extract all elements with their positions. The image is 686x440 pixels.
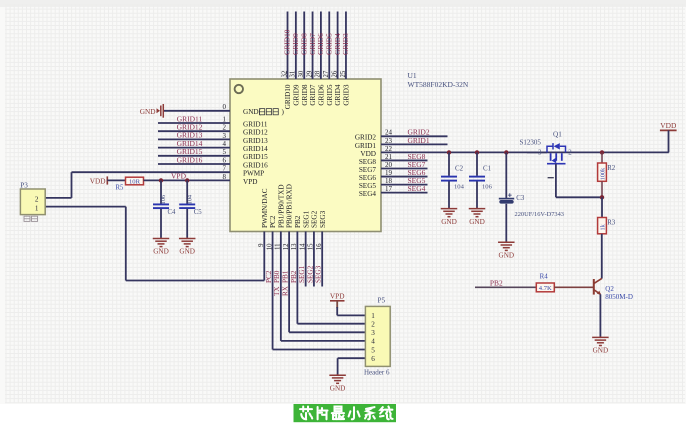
wire SEG4 stub	[381, 192, 428, 194]
svg-text:PB2: PB2	[290, 270, 298, 283]
capacitor C4	[153, 180, 169, 237]
P3 designator	[20, 181, 28, 189]
svg-text:S12305: S12305	[520, 139, 542, 147]
power port VDD top right	[660, 121, 677, 130]
svg-text:C5: C5	[194, 209, 203, 216]
ground below C4	[153, 238, 170, 256]
svg-text:SEG3: SEG3	[319, 210, 327, 228]
net label SEG4	[408, 184, 426, 193]
svg-text:3: 3	[538, 149, 542, 156]
ground below P5	[329, 374, 346, 392]
wire pin0 GND	[164, 110, 230, 112]
mosfet Q1 S12305	[547, 143, 566, 164]
svg-text:RX: RX	[282, 285, 290, 296]
U1 right pin names	[355, 134, 377, 198]
svg-text:SEG2: SEG2	[306, 265, 314, 283]
net label GRID14	[177, 139, 203, 148]
Q1 gate pin tick	[548, 177, 554, 179]
ground power port at pin 0	[140, 104, 164, 118]
capacitor C1	[469, 152, 485, 208]
wire PB1 to P5 pin3	[289, 232, 365, 333]
P5 designator	[378, 296, 386, 304]
junction C5	[185, 178, 189, 182]
junction C3 on VDD rail	[504, 150, 508, 154]
U1 top pin names	[284, 84, 350, 109]
U1 left pin names	[243, 108, 285, 186]
wire GRID4 top pin	[337, 12, 339, 80]
wire GRID7 top pin	[312, 12, 314, 80]
svg-text:PB1/PB0/TXD: PB1/PB0/TXD	[277, 184, 285, 228]
wire GRID14 stub	[158, 147, 230, 149]
wire PB2 to P5 pin2	[297, 232, 365, 324]
svg-text:GND: GND	[330, 384, 346, 392]
svg-text:P3: P3	[20, 181, 28, 189]
wire VDD to R5	[107, 179, 125, 181]
wire GRID2 stub	[381, 135, 448, 137]
svg-text:SEG4: SEG4	[408, 184, 426, 193]
IC U1 WT588F02KD-32N body	[230, 79, 381, 232]
wire VPD row pin8	[144, 179, 231, 181]
svg-text:PWMP: PWMP	[243, 170, 264, 178]
capacitor C5	[179, 180, 195, 237]
wire PB0 to P5 pin4	[281, 232, 366, 341]
C2 value 104	[454, 184, 465, 191]
svg-text:GRID1: GRID1	[408, 136, 430, 145]
svg-text:SEG5: SEG5	[359, 182, 377, 190]
svg-text:GND: GND	[179, 248, 195, 256]
svg-text:SEG3: SEG3	[315, 265, 323, 283]
wire GRID9 top pin	[295, 12, 297, 80]
net label GRID2	[408, 128, 430, 137]
svg-text:PB0: PB0	[273, 270, 281, 283]
net label SEG8	[408, 152, 426, 161]
wire GRID13 stub	[158, 138, 230, 140]
wire PC2 to P5 pin5	[273, 232, 366, 350]
svg-text:2: 2	[35, 196, 39, 204]
svg-text:GRID14: GRID14	[243, 145, 268, 153]
C1 designator	[483, 166, 492, 173]
svg-text:TX: TX	[273, 286, 281, 296]
wire GRID1 stub	[381, 143, 448, 145]
svg-text:GRID5: GRID5	[326, 84, 334, 106]
svg-text:100k: 100k	[599, 167, 606, 180]
power port VPD above P5	[330, 291, 345, 301]
net label GRID16	[177, 155, 203, 164]
ground below C3	[498, 241, 515, 259]
wire GRID3 top pin	[345, 12, 347, 80]
wire SEG2 stub	[313, 232, 315, 287]
Q2 designator	[605, 285, 614, 293]
C1 value 106	[482, 184, 493, 191]
net labels top GRID10-GRID3	[283, 29, 350, 55]
net label GRID1	[408, 136, 430, 145]
wire GRID10 top pin	[287, 12, 289, 80]
wire GRID8 top pin	[303, 12, 305, 80]
R2 designator	[607, 165, 616, 172]
wire SEG7 stub	[381, 168, 428, 170]
svg-text:GND: GND	[469, 218, 485, 226]
svg-text:SEG1: SEG1	[302, 210, 310, 228]
svg-text:C4: C4	[168, 209, 177, 216]
power port VDD left	[90, 176, 108, 185]
svg-text:1k: 1k	[599, 223, 606, 230]
junction C2 on VDD rail	[447, 150, 451, 154]
svg-text:PWMN/DAC: PWMN/DAC	[261, 188, 269, 228]
U1 designator label	[408, 71, 417, 80]
wire SEG5 stub	[381, 184, 428, 186]
svg-text:C1: C1	[483, 166, 492, 173]
svg-text:VPD: VPD	[171, 171, 187, 180]
R4 designator	[540, 274, 549, 281]
svg-text:SEG2: SEG2	[311, 210, 319, 228]
svg-text:SEG4: SEG4	[359, 190, 377, 198]
wire to R3	[601, 197, 603, 217]
U1 top pin numbers	[281, 70, 346, 77]
C5 value 104	[186, 194, 193, 204]
svg-text:GRID13: GRID13	[243, 137, 268, 145]
wire GRID12 stub	[158, 130, 230, 132]
svg-text:VDD: VDD	[90, 176, 106, 185]
Q1 pin3 number	[538, 149, 542, 156]
ground below Q2	[592, 336, 609, 354]
svg-text:104: 104	[186, 194, 193, 204]
title 芯片最小系统 (chip minimal system)	[294, 404, 397, 422]
wire PB2 stub	[475, 286, 536, 288]
wire SEG3 stub	[321, 232, 323, 287]
svg-text:106: 106	[482, 184, 493, 191]
junction C1 on VDD rail	[475, 150, 479, 154]
svg-text:GND: GND	[441, 218, 457, 226]
svg-text:GRID16: GRID16	[177, 155, 203, 164]
svg-text:5: 5	[371, 346, 375, 354]
svg-text:2: 2	[371, 321, 375, 329]
resistor R4	[536, 283, 554, 292]
wire P5 pin6 to ground	[338, 358, 366, 374]
svg-text:4: 4	[371, 338, 375, 346]
svg-text:GND: GND	[593, 347, 609, 355]
svg-text:10R: 10R	[129, 179, 141, 186]
svg-text:GRID7: GRID7	[309, 84, 317, 106]
wire Q1 gate to R2 bottom	[556, 164, 602, 198]
ground below C1	[469, 208, 486, 226]
R5 designator	[116, 184, 125, 191]
svg-text:VDD: VDD	[360, 150, 376, 158]
net label SEG7	[408, 160, 426, 169]
svg-text:SEG8: SEG8	[359, 158, 377, 166]
svg-text:6: 6	[371, 355, 375, 363]
transistor Q2 8050M-D	[594, 278, 602, 294]
svg-text:104: 104	[454, 184, 465, 191]
net label RX	[282, 285, 290, 296]
wire R3 to Q2 collector	[601, 234, 603, 279]
wire P3 pin1 run	[45, 207, 126, 281]
resistor R3	[598, 218, 607, 234]
svg-text:PC2: PC2	[265, 270, 273, 283]
ground below C2	[441, 208, 458, 226]
wire SEG1 stub	[305, 232, 307, 287]
U1 left pin numbers	[223, 103, 227, 181]
U1 bottom pin names	[261, 184, 327, 228]
U1 part number label	[408, 80, 469, 89]
wire GRID11 stub	[158, 122, 230, 124]
svg-text:SEG7: SEG7	[359, 166, 377, 174]
wire VPD to P5 pin1	[337, 301, 365, 316]
C5 designator	[194, 209, 203, 216]
svg-text:GRID9: GRID9	[292, 84, 300, 106]
svg-text:1: 1	[371, 312, 375, 320]
svg-text:R5: R5	[116, 184, 125, 191]
svg-text:U1: U1	[408, 71, 417, 80]
svg-text:R3: R3	[607, 220, 616, 227]
svg-text:C2: C2	[455, 166, 464, 173]
wire R2 bottom stub	[601, 181, 603, 197]
svg-text:GRID15: GRID15	[243, 153, 268, 161]
junction C4	[159, 178, 163, 182]
net label SEG6	[408, 168, 426, 177]
svg-text:WT588F02KD-32N: WT588F02KD-32N	[408, 80, 469, 89]
svg-text:GRID12: GRID12	[243, 129, 268, 137]
svg-text:PB2: PB2	[490, 278, 503, 287]
svg-text:GRID10: GRID10	[284, 84, 292, 109]
svg-text:4.7K: 4.7K	[539, 285, 552, 292]
net label PB2	[490, 278, 503, 287]
R3 designator	[607, 220, 616, 227]
junction R2 top	[600, 150, 604, 154]
svg-text:R2: R2	[607, 165, 616, 172]
svg-text:106: 106	[160, 195, 167, 205]
net label GRID11	[177, 114, 203, 123]
svg-text:VPD: VPD	[330, 291, 345, 300]
svg-text:VPD: VPD	[243, 178, 257, 186]
connector P5 Header6	[365, 306, 390, 366]
svg-text:C3: C3	[516, 195, 525, 202]
U1 bottom pin numbers	[258, 243, 323, 250]
wire GRID5 top pin	[328, 12, 330, 80]
C4 designator	[168, 209, 177, 216]
svg-text:P5: P5	[378, 296, 386, 304]
svg-text:GRID6: GRID6	[318, 84, 326, 106]
svg-text:Q2: Q2	[605, 285, 614, 293]
net label GRID13	[177, 131, 203, 140]
svg-text:GND: GND	[140, 107, 156, 116]
svg-text:1: 1	[35, 204, 39, 212]
Q1 pin2 number	[568, 149, 572, 156]
svg-text:GND(: GND(	[243, 108, 262, 116]
wire GRID15 stub	[158, 155, 230, 157]
wire SEG8 stub	[381, 159, 428, 161]
wire GRID16 stub	[158, 163, 230, 165]
svg-text:GRID3: GRID3	[341, 33, 350, 55]
net label GRID12	[177, 123, 203, 132]
net label SEG5	[408, 176, 426, 185]
wire pin7 PWMP to P3	[72, 171, 231, 173]
net label TX	[273, 286, 281, 296]
wire pin9 route	[126, 232, 264, 281]
net label GRID15	[177, 147, 203, 156]
C4 value 106	[160, 195, 167, 205]
U1 right pin numbers	[385, 129, 393, 193]
C3 designator	[516, 195, 525, 202]
Q1 designator	[553, 131, 562, 139]
svg-text:GRID8: GRID8	[301, 84, 309, 106]
wire Q2 emitter down	[599, 294, 601, 337]
svg-text:2: 2	[568, 149, 572, 156]
capacitor C2	[441, 152, 457, 208]
wire R2 top stub	[601, 152, 603, 163]
svg-text:SEG1: SEG1	[298, 265, 306, 283]
svg-text:GRID16: GRID16	[243, 161, 268, 169]
Q2 comment 8050M-D	[605, 293, 633, 301]
svg-text:GND: GND	[153, 248, 169, 256]
svg-text:GRID3: GRID3	[343, 84, 351, 106]
net label VPD at pin8	[171, 171, 187, 180]
ground below C5	[179, 238, 196, 256]
svg-text:Header 6: Header 6	[364, 368, 390, 376]
Q1 comment S12305	[520, 139, 542, 147]
svg-text:3: 3	[371, 329, 375, 337]
C2 designator	[455, 166, 464, 173]
svg-text:GRID2: GRID2	[355, 134, 377, 142]
connector P3	[20, 189, 45, 215]
resistor R5	[126, 177, 144, 186]
wire R4 to Q2 base	[554, 286, 593, 288]
P5 comment Header 6	[364, 368, 390, 376]
svg-text:Q1: Q1	[553, 131, 562, 139]
svg-text:PB2: PB2	[294, 215, 302, 228]
svg-text:PB0/PB1/RXD: PB0/PB1/RXD	[286, 184, 294, 228]
svg-text:220UF/16V-D7343: 220UF/16V-D7343	[515, 211, 564, 218]
wire riser P3 pin2	[45, 172, 71, 198]
wire VDD rail	[381, 151, 669, 153]
wire VDD rail into Q1	[527, 151, 547, 153]
P3 comment glyphs	[24, 216, 38, 221]
wire SEG6 stub	[381, 176, 428, 178]
wire VDD drop	[668, 130, 670, 152]
svg-text:GND: GND	[499, 252, 515, 260]
svg-text:GRID11: GRID11	[243, 120, 268, 128]
resistor R2	[598, 163, 607, 181]
capacitor C3 polarized	[499, 152, 514, 241]
svg-text:PC2: PC2	[269, 215, 277, 228]
svg-text:GRID1: GRID1	[355, 142, 377, 150]
svg-text:VDD: VDD	[660, 121, 677, 130]
svg-text:R4: R4	[540, 274, 549, 281]
svg-text:PB1: PB1	[282, 270, 290, 283]
junction R2 bottom	[600, 195, 604, 199]
svg-text:8050M-D: 8050M-D	[605, 293, 633, 301]
svg-text:GRID4: GRID4	[334, 84, 342, 106]
wire GRID6 top pin	[320, 12, 322, 80]
net labels bottom pins	[265, 265, 323, 283]
C3 value	[515, 211, 564, 218]
svg-text:SEG6: SEG6	[359, 174, 377, 182]
